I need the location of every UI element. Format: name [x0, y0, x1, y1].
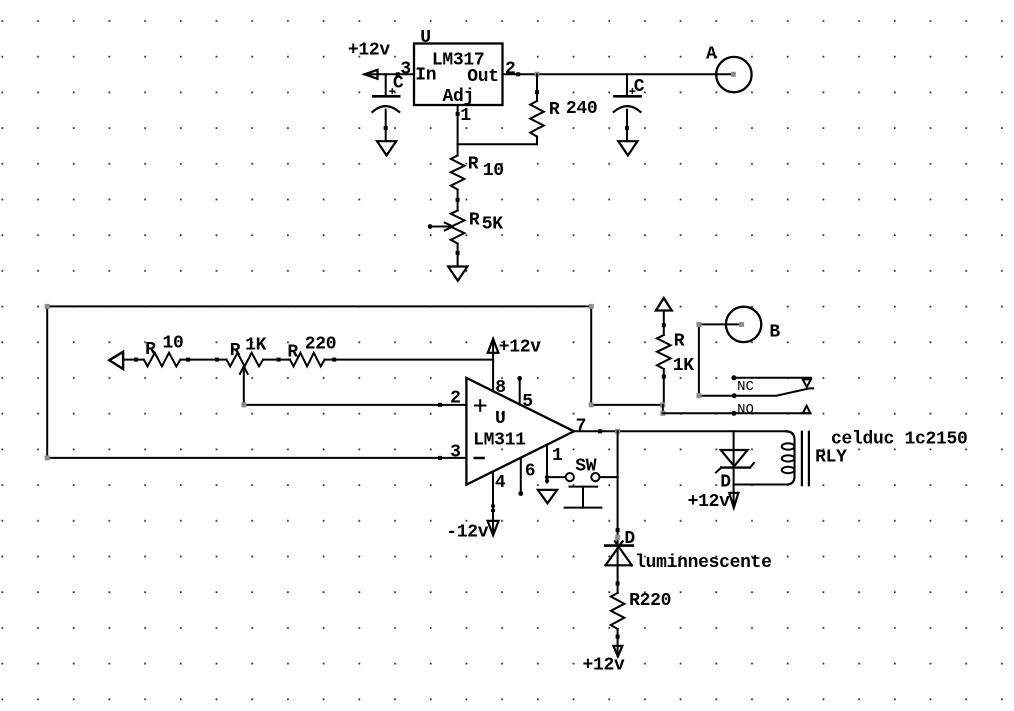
svg-text:A: A: [706, 45, 717, 65]
junction: [615, 429, 620, 434]
capacitor C2: [626, 74, 628, 96]
resistor R220: [611, 593, 625, 629]
svg-text:R: R: [287, 342, 298, 362]
relay contact NO: [662, 405, 664, 413]
wire pin 1: [546, 445, 548, 483]
svg-text:U: U: [495, 409, 506, 429]
svg-text:5: 5: [522, 392, 533, 412]
input arrow: [109, 352, 123, 369]
svg-text:10: 10: [163, 333, 184, 353]
wire: [574, 430, 786, 432]
svg-text:NO: NO: [737, 402, 754, 418]
svg-text:1: 1: [552, 446, 563, 466]
svg-text:R: R: [468, 155, 479, 175]
relay contact arm: [699, 388, 813, 395]
svg-text:R: R: [549, 100, 560, 120]
resistor R10: [144, 353, 181, 367]
resistor R10: [451, 156, 465, 190]
svg-text:celduc 1c2150: celduc 1c2150: [831, 429, 968, 449]
svg-text:220: 220: [305, 335, 337, 355]
ground: [448, 267, 467, 281]
svg-text:+12v: +12v: [583, 656, 626, 676]
svg-text:B: B: [769, 322, 780, 342]
svg-text:D: D: [720, 473, 731, 493]
junction: [535, 72, 540, 77]
svg-text:U: U: [420, 28, 431, 48]
potentiometer R5K: [451, 211, 465, 244]
power flag +12v: [492, 339, 494, 360]
resistor R240: [536, 74, 538, 101]
wire: [503, 73, 734, 75]
svg-text:1K: 1K: [673, 356, 695, 376]
svg-text:R220: R220: [629, 591, 671, 611]
wire: [123, 359, 144, 361]
power flag +12v: [613, 646, 622, 657]
capacitor C1: [385, 74, 387, 96]
op-amp U LM311: [466, 378, 574, 485]
svg-text:RLY: RLY: [815, 447, 847, 467]
svg-text:4: 4: [495, 473, 506, 493]
connector A: [716, 57, 751, 92]
svg-text:D: D: [624, 529, 635, 549]
svg-text:2: 2: [505, 60, 516, 80]
svg-text:R: R: [145, 340, 156, 360]
svg-text:+12v: +12v: [348, 40, 391, 60]
power flag +12v: [733, 485, 735, 508]
power flag -12v: [488, 521, 499, 535]
svg-text:3: 3: [450, 442, 461, 462]
wire: [244, 404, 467, 406]
svg-text:R: R: [469, 211, 480, 231]
wire: [47, 306, 663, 458]
wire pin 4: [492, 472, 494, 535]
svg-text:3: 3: [400, 60, 411, 80]
LED D luminnescente: [605, 544, 633, 547]
svg-text:luminnescente: luminnescente: [635, 553, 772, 573]
wire: [378, 73, 415, 75]
svg-text:C: C: [634, 77, 645, 97]
ground: [618, 141, 637, 155]
svg-text:1: 1: [460, 106, 471, 126]
relay coil RLY: [734, 431, 795, 484]
svg-text:10: 10: [483, 161, 504, 181]
potentiometer R1K: [227, 353, 264, 367]
svg-text:2: 2: [450, 388, 461, 408]
ground: [538, 490, 557, 503]
svg-text:5K: 5K: [482, 215, 504, 235]
svg-text:NC: NC: [737, 379, 754, 395]
svg-text:6: 6: [525, 462, 536, 482]
svg-text:+12v: +12v: [499, 338, 542, 358]
resistor R220: [290, 353, 325, 367]
wire: [457, 105, 459, 156]
svg-text:-12v: -12v: [446, 522, 489, 542]
relay contact NC: [731, 375, 736, 380]
svg-text:R: R: [230, 341, 241, 361]
svg-text:240: 240: [566, 99, 598, 119]
svg-text:8: 8: [495, 378, 506, 398]
zener diode D: [733, 431, 735, 484]
svg-text:1K: 1K: [245, 335, 267, 355]
svg-text:+12v: +12v: [688, 492, 731, 512]
regulator U LM317: [414, 44, 503, 106]
svg-text:LM311: LM311: [473, 431, 526, 451]
svg-text:R: R: [674, 331, 685, 351]
svg-text:SW: SW: [575, 456, 597, 476]
switch SW: [566, 473, 574, 481]
junction: [660, 402, 665, 407]
connector B: [698, 324, 700, 395]
svg-text:7: 7: [576, 417, 587, 437]
ground: [377, 141, 396, 155]
resistor R 1K: [656, 298, 672, 311]
svg-text:In: In: [415, 66, 436, 86]
svg-text:Out: Out: [467, 67, 499, 87]
wire: [617, 431, 619, 545]
